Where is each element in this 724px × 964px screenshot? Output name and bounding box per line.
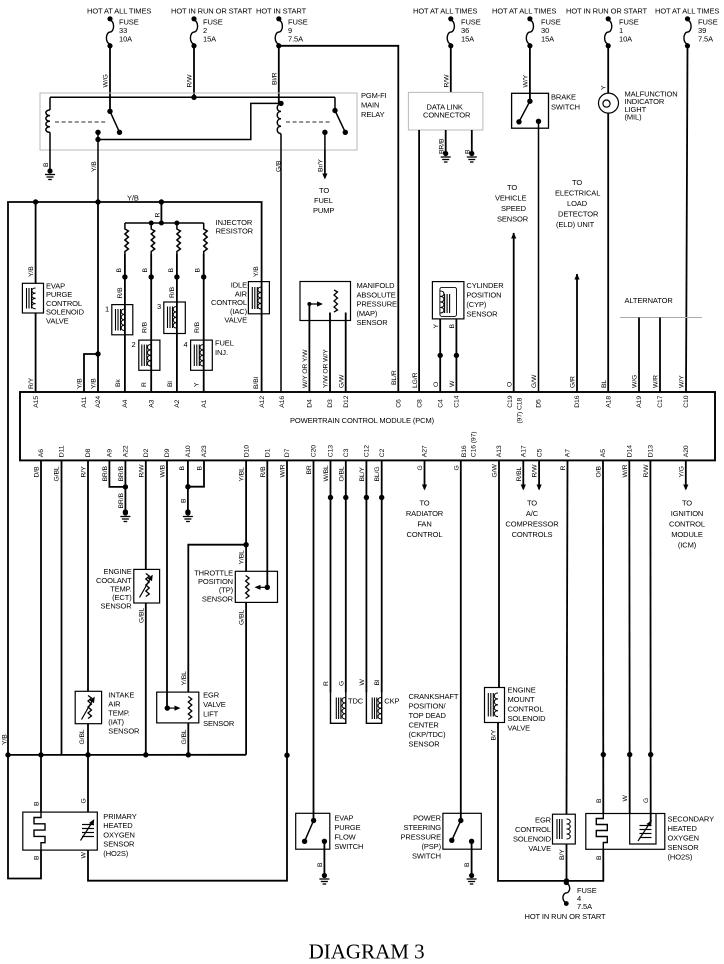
svg-text:A10: A10	[185, 445, 192, 457]
svg-text:G/BL: G/BL	[79, 729, 86, 744]
svg-text:INJECTOR: INJECTOR	[216, 218, 253, 227]
svg-text:C4: C4	[437, 399, 444, 408]
svg-text:HOT AT ALL TIMES: HOT AT ALL TIMES	[87, 7, 151, 16]
svg-text:D1: D1	[265, 448, 272, 457]
svg-text:HOT AT ALL TIMES: HOT AT ALL TIMES	[413, 7, 477, 16]
svg-text:C10: C10	[683, 395, 690, 407]
svg-text:CONTROL: CONTROL	[515, 825, 551, 834]
svg-text:C14: C14	[454, 395, 461, 407]
svg-text:VALVE: VALVE	[528, 844, 551, 853]
svg-text:SENSOR: SENSOR	[103, 840, 135, 849]
svg-text:Y/B: Y/B	[91, 161, 98, 172]
svg-text:C3: C3	[343, 448, 350, 457]
svg-text:A17: A17	[521, 445, 528, 457]
svg-text:CONTROLS: CONTROLS	[512, 530, 553, 539]
svg-text:4: 4	[184, 340, 188, 349]
svg-text:C2: C2	[379, 448, 386, 457]
svg-text:TO: TO	[507, 183, 517, 192]
svg-text:Bl: Bl	[374, 679, 381, 685]
svg-text:R/W: R/W	[532, 464, 539, 478]
svg-text:D9: D9	[164, 448, 171, 457]
svg-text:C5: C5	[536, 448, 543, 457]
svg-text:FLOW: FLOW	[334, 833, 356, 842]
svg-text:D/B: D/B	[34, 466, 41, 478]
svg-text:EGR: EGR	[535, 816, 552, 825]
svg-text:SOLENOID: SOLENOID	[46, 308, 85, 317]
svg-text:W: W	[359, 679, 366, 686]
svg-text:W: W	[449, 380, 456, 387]
svg-text:W/Y: W/Y	[522, 74, 529, 87]
svg-text:CONNECTOR: CONNECTOR	[423, 110, 471, 119]
svg-text:RESISTOR: RESISTOR	[216, 227, 254, 236]
svg-text:A19: A19	[636, 396, 643, 408]
svg-text:Bk: Bk	[115, 379, 122, 387]
svg-text:W: W	[81, 852, 88, 859]
svg-text:TO: TO	[419, 499, 429, 508]
svg-text:BR/B: BR/B	[118, 492, 125, 508]
svg-text:CONTROL: CONTROL	[46, 299, 82, 308]
svg-text:AIR: AIR	[108, 699, 121, 708]
svg-text:G/BL: G/BL	[54, 466, 61, 481]
svg-text:Y/BL: Y/BL	[239, 550, 246, 565]
svg-text:FAN: FAN	[417, 520, 431, 529]
svg-text:O/BL: O/BL	[338, 466, 345, 481]
svg-text:A13: A13	[496, 445, 503, 457]
svg-text:CONTROL: CONTROL	[407, 530, 443, 539]
svg-text:A20: A20	[683, 445, 690, 457]
svg-text:HOT IN RUN OR START: HOT IN RUN OR START	[171, 7, 253, 16]
svg-text:A18: A18	[606, 396, 613, 408]
svg-text:A2: A2	[174, 399, 181, 407]
svg-text:W/R: W/R	[622, 464, 629, 477]
svg-text:Y/G: Y/G	[678, 466, 685, 477]
svg-text:G/BL: G/BL	[138, 608, 145, 623]
svg-text:B: B	[180, 498, 187, 503]
svg-text:Y/B: Y/B	[28, 266, 35, 277]
svg-text:B/Bl: B/Bl	[253, 376, 260, 389]
svg-text:Y: Y	[194, 382, 201, 387]
svg-text:(MIL): (MIL)	[625, 113, 643, 122]
svg-text:B: B	[465, 149, 472, 154]
svg-text:DIAGRAM 3: DIAGRAM 3	[309, 940, 425, 964]
svg-text:R/W: R/W	[443, 74, 450, 88]
svg-text:G/BL: G/BL	[239, 610, 246, 625]
svg-text:W/R: W/R	[280, 464, 287, 477]
svg-text:2: 2	[132, 340, 136, 349]
svg-text:R/W: R/W	[187, 74, 194, 88]
svg-text:SOLENOID: SOLENOID	[513, 835, 552, 844]
svg-text:HOT IN START: HOT IN START	[256, 7, 307, 16]
svg-text:SECONDARY: SECONDARY	[668, 815, 715, 824]
svg-text:CONTROL: CONTROL	[669, 520, 705, 529]
svg-text:A11: A11	[81, 396, 88, 408]
svg-text:A3: A3	[148, 399, 155, 407]
svg-text:VEHICLE: VEHICLE	[495, 194, 526, 203]
svg-text:R/B: R/B	[117, 287, 124, 299]
svg-text:Y/BL: Y/BL	[181, 671, 188, 686]
svg-text:SENSOR: SENSOR	[101, 602, 133, 611]
svg-text:G/R: G/R	[570, 376, 577, 388]
svg-text:R/W: R/W	[643, 464, 650, 478]
svg-text:R/Y: R/Y	[28, 377, 35, 389]
svg-text:B: B	[142, 268, 149, 273]
svg-text:C13: C13	[328, 445, 335, 457]
svg-text:G: G	[338, 681, 345, 686]
svg-text:B: B	[34, 801, 41, 806]
svg-text:VALVE: VALVE	[224, 316, 247, 325]
svg-text:W/G: W/G	[103, 74, 110, 87]
svg-text:SENSOR: SENSOR	[466, 309, 498, 318]
svg-text:BL: BL	[601, 380, 608, 388]
svg-text:R: R	[141, 382, 148, 387]
svg-text:(ICM): (ICM)	[678, 541, 697, 550]
svg-text:ALTERNATOR: ALTERNATOR	[625, 296, 674, 305]
svg-text:CENTER: CENTER	[409, 721, 440, 730]
svg-text:PRESSURE: PRESSURE	[401, 833, 442, 842]
svg-text:Y/B: Y/B	[77, 378, 84, 389]
svg-text:PURGE: PURGE	[46, 290, 72, 299]
svg-text:HOT AT ALL TIMES: HOT AT ALL TIMES	[655, 7, 719, 16]
svg-text:B: B	[464, 862, 471, 867]
svg-text:D8: D8	[85, 448, 92, 457]
svg-text:D13: D13	[648, 445, 655, 457]
svg-text:(MAP): (MAP)	[357, 309, 378, 318]
svg-text:W/Y: W/Y	[679, 375, 686, 388]
svg-text:A5: A5	[600, 449, 607, 457]
svg-text:A4: A4	[122, 399, 129, 407]
svg-text:Y: Y	[601, 85, 608, 90]
svg-text:W/R: W/R	[653, 375, 660, 388]
svg-text:(ELD) UNIT: (ELD) UNIT	[556, 220, 595, 229]
svg-text:POWER: POWER	[413, 814, 442, 823]
svg-text:G: G	[643, 798, 650, 803]
svg-text:HOT IN RUN OR START: HOT IN RUN OR START	[566, 7, 648, 16]
svg-text:SPEED: SPEED	[501, 204, 527, 213]
svg-text:A27: A27	[422, 445, 429, 457]
svg-text:A22: A22	[123, 445, 130, 457]
svg-text:7.5A: 7.5A	[288, 35, 303, 44]
svg-text:G: G	[453, 465, 460, 470]
svg-text:PRESSURE: PRESSURE	[357, 300, 398, 309]
svg-text:C19: C19	[507, 395, 514, 407]
svg-text:B/Y: B/Y	[491, 729, 498, 740]
svg-text:(HO2S): (HO2S)	[103, 849, 128, 858]
svg-text:BL/R: BL/R	[391, 370, 398, 385]
svg-text:R: R	[154, 213, 161, 218]
svg-text:G: G	[81, 798, 88, 803]
svg-text:A24: A24	[95, 396, 102, 408]
svg-text:Bl/R: Bl/R	[271, 72, 278, 85]
svg-text:POSITION/: POSITION/	[409, 702, 447, 711]
svg-text:W/B: W/B	[160, 464, 167, 477]
svg-text:G/W: G/W	[531, 374, 538, 388]
svg-text:OXYGEN: OXYGEN	[668, 834, 700, 843]
svg-text:A16: A16	[279, 396, 286, 408]
svg-text:G/B: G/B	[276, 160, 283, 172]
svg-text:R/Y: R/Y	[81, 466, 88, 478]
svg-text:W/BL: W/BL	[323, 465, 330, 482]
svg-text:LOAD: LOAD	[567, 199, 588, 208]
svg-text:DETECTOR: DETECTOR	[558, 210, 599, 219]
svg-text:B: B	[197, 466, 204, 471]
svg-text:HEATED: HEATED	[668, 824, 698, 833]
svg-text:A23: A23	[201, 445, 208, 457]
svg-text:G: G	[417, 465, 424, 470]
svg-text:W/G: W/G	[632, 375, 639, 388]
svg-text:IDLE: IDLE	[231, 281, 247, 290]
svg-text:(CKP/TDC): (CKP/TDC)	[409, 730, 447, 739]
svg-text:A6: A6	[38, 449, 45, 457]
svg-text:A9: A9	[107, 449, 114, 457]
svg-text:PUMP: PUMP	[313, 206, 334, 215]
svg-text:A/C: A/C	[526, 509, 539, 518]
svg-text:EVAP: EVAP	[46, 281, 65, 290]
svg-text:B: B	[596, 798, 603, 803]
svg-text:BR/B: BR/B	[438, 138, 445, 154]
svg-text:G/BL: G/BL	[181, 729, 188, 744]
svg-text:O/B: O/B	[596, 466, 603, 478]
svg-text:W/Y OR Y/W: W/Y OR Y/W	[302, 349, 309, 388]
svg-text:POSITION: POSITION	[466, 291, 501, 300]
svg-text:W: W	[622, 795, 629, 802]
svg-text:B: B	[168, 268, 175, 273]
svg-text:C17: C17	[657, 395, 664, 407]
svg-text:B16: B16	[461, 445, 468, 457]
svg-text:R/BL: R/BL	[516, 466, 523, 481]
svg-text:SENSOR: SENSOR	[497, 215, 529, 224]
svg-text:POWERTRAIN CONTROL MODULE (PCM: POWERTRAIN CONTROL MODULE (PCM)	[290, 416, 435, 425]
svg-text:R/B: R/B	[169, 286, 176, 298]
svg-text:SENSOR: SENSOR	[357, 318, 389, 327]
svg-text:Y/B: Y/B	[127, 194, 139, 203]
svg-text:PURGE: PURGE	[334, 823, 360, 832]
svg-text:COMPRESSOR: COMPRESSOR	[505, 520, 559, 529]
svg-text:G/W: G/W	[338, 374, 345, 388]
svg-text:15A: 15A	[541, 35, 554, 44]
svg-text:B: B	[449, 324, 456, 329]
svg-text:R/B: R/B	[260, 466, 267, 478]
svg-text:7.5A: 7.5A	[577, 902, 592, 911]
svg-text:CONTROL: CONTROL	[508, 705, 544, 714]
svg-text:D4: D4	[307, 399, 314, 408]
svg-text:CKP: CKP	[384, 696, 399, 705]
svg-text:SENSOR: SENSOR	[203, 719, 235, 728]
svg-text:Y/W OR W/Y: Y/W OR W/Y	[323, 349, 330, 388]
svg-text:(HO2S): (HO2S)	[668, 853, 693, 862]
svg-text:CYLINDER: CYLINDER	[466, 281, 504, 290]
svg-text:IGNITION: IGNITION	[671, 509, 704, 518]
svg-text:OXYGEN: OXYGEN	[103, 830, 135, 839]
svg-text:R: R	[560, 466, 567, 471]
svg-text:PGM-FI: PGM-FI	[361, 91, 387, 100]
svg-text:3: 3	[157, 302, 161, 311]
svg-text:Y/B: Y/B	[91, 378, 98, 389]
svg-text:A12: A12	[259, 396, 266, 408]
svg-text:RELAY: RELAY	[361, 110, 385, 119]
svg-text:SOLENOID: SOLENOID	[508, 714, 547, 723]
svg-text:TO: TO	[682, 499, 692, 508]
svg-text:B: B	[195, 268, 202, 273]
svg-text:SWITCH: SWITCH	[551, 103, 580, 112]
svg-text:(97) C18: (97) C18	[517, 398, 524, 424]
svg-text:BL/G: BL/G	[374, 466, 381, 481]
svg-text:LIFT: LIFT	[203, 709, 219, 718]
svg-text:D14: D14	[627, 445, 634, 457]
svg-text:BL/Y: BL/Y	[359, 467, 366, 482]
svg-text:B: B	[43, 162, 50, 167]
svg-text:D16: D16	[574, 395, 581, 407]
svg-text:D7: D7	[284, 448, 291, 457]
svg-text:Bl: Bl	[167, 381, 174, 387]
svg-text:TDC: TDC	[348, 696, 364, 705]
svg-text:LG/R: LG/R	[412, 372, 419, 388]
svg-text:SWITCH: SWITCH	[412, 852, 441, 861]
svg-text:TO: TO	[319, 186, 329, 195]
svg-text:Br/Y: Br/Y	[317, 159, 324, 172]
svg-text:D10: D10	[243, 445, 250, 457]
svg-text:A15: A15	[33, 396, 40, 408]
svg-text:C6: C6	[396, 399, 403, 408]
svg-text:HOT IN RUN OR START: HOT IN RUN OR START	[525, 912, 607, 921]
svg-text:MANIFOLD: MANIFOLD	[357, 281, 396, 290]
svg-text:R/B: R/B	[142, 321, 149, 333]
svg-text:HOT AT ALL TIMES: HOT AT ALL TIMES	[492, 7, 556, 16]
svg-text:MOUNT: MOUNT	[508, 695, 536, 704]
svg-text:(PSP): (PSP)	[421, 842, 441, 851]
svg-text:ELECTRICAL: ELECTRICAL	[555, 189, 600, 198]
svg-text:SENSOR: SENSOR	[202, 594, 234, 603]
svg-text:MODULE: MODULE	[671, 530, 703, 539]
svg-text:INTAKE: INTAKE	[108, 690, 134, 699]
svg-text:D2: D2	[143, 448, 150, 457]
svg-text:15A: 15A	[461, 35, 474, 44]
svg-text:FUEL: FUEL	[314, 196, 333, 205]
svg-text:RADIATOR: RADIATOR	[406, 509, 444, 518]
svg-text:B: B	[116, 268, 123, 273]
svg-text:D12: D12	[343, 395, 350, 407]
svg-text:O: O	[433, 382, 440, 387]
svg-text:VALVE: VALVE	[203, 700, 226, 709]
svg-text:Y/BL: Y/BL	[239, 467, 246, 482]
svg-text:Y/B: Y/B	[2, 734, 9, 745]
svg-text:VALVE: VALVE	[508, 724, 531, 733]
svg-text:BR/B: BR/B	[118, 465, 125, 481]
svg-text:AIR: AIR	[235, 289, 248, 298]
svg-text:R: R	[323, 681, 330, 686]
svg-text:SENSOR: SENSOR	[409, 740, 441, 749]
svg-text:B/Y: B/Y	[559, 849, 566, 860]
svg-text:O: O	[506, 382, 513, 387]
svg-text:B: B	[34, 855, 41, 860]
svg-text:TOP DEAD: TOP DEAD	[409, 711, 447, 720]
svg-text:D3: D3	[327, 399, 334, 408]
svg-text:C12: C12	[364, 445, 371, 457]
svg-text:15A: 15A	[203, 35, 216, 44]
svg-text:A1: A1	[201, 399, 208, 407]
svg-text:CRANKSHAFT: CRANKSHAFT	[409, 692, 459, 701]
svg-text:R/W: R/W	[138, 464, 145, 478]
svg-text:MAIN: MAIN	[361, 101, 379, 110]
svg-text:(CYP): (CYP)	[466, 300, 487, 309]
svg-text:SWITCH: SWITCH	[334, 842, 363, 851]
svg-text:VALVE: VALVE	[46, 317, 69, 326]
svg-text:BR/B: BR/B	[102, 465, 109, 481]
svg-text:10A: 10A	[119, 35, 132, 44]
svg-text:ABSOLUTE: ABSOLUTE	[357, 290, 396, 299]
svg-text:C8: C8	[416, 399, 423, 408]
svg-text:INJ.: INJ.	[215, 348, 228, 357]
svg-text:HEATED: HEATED	[103, 821, 133, 830]
svg-text:EGR: EGR	[203, 690, 220, 699]
svg-text:1: 1	[105, 305, 109, 314]
svg-text:D5: D5	[536, 399, 543, 408]
svg-text:CONTROL: CONTROL	[211, 298, 247, 307]
svg-text:TO: TO	[527, 499, 537, 508]
svg-text:B: B	[596, 855, 603, 860]
svg-text:B: B	[317, 862, 324, 867]
svg-text:PRIMARY: PRIMARY	[103, 812, 136, 821]
svg-text:(IAC): (IAC)	[230, 307, 248, 316]
svg-text:ENGINE: ENGINE	[508, 686, 536, 695]
svg-text:EVAP: EVAP	[334, 814, 353, 823]
svg-text:C16 (97): C16 (97)	[471, 432, 478, 458]
svg-text:Y/B: Y/B	[253, 266, 260, 277]
svg-text:TEMP.: TEMP.	[108, 708, 129, 717]
svg-text:STEERING: STEERING	[403, 823, 441, 832]
svg-text:10A: 10A	[619, 35, 632, 44]
svg-text:G/W: G/W	[492, 464, 499, 478]
svg-text:BR: BR	[306, 465, 313, 474]
svg-text:A7: A7	[565, 449, 572, 457]
svg-text:Y: Y	[433, 324, 440, 329]
svg-text:R/B: R/B	[194, 321, 201, 333]
svg-text:D11: D11	[59, 445, 66, 457]
svg-text:TO: TO	[572, 178, 582, 187]
svg-text:C20: C20	[311, 445, 318, 457]
svg-text:FUEL: FUEL	[215, 339, 234, 348]
svg-text:SENSOR: SENSOR	[108, 726, 140, 735]
svg-text:(IAT): (IAT)	[108, 717, 124, 726]
svg-text:7.5A: 7.5A	[698, 35, 713, 44]
svg-text:B: B	[179, 466, 186, 471]
svg-text:BRAKE: BRAKE	[551, 93, 576, 102]
svg-text:SENSOR: SENSOR	[668, 843, 700, 852]
